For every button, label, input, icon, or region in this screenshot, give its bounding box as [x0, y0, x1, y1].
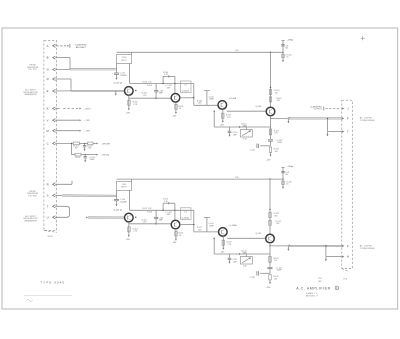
svg-text:C: C: [47, 142, 49, 146]
svg-text:R-105: R-105: [147, 85, 152, 87]
transformer T-2: [181, 81, 192, 93]
wire output to shielded run: [270, 245, 288, 247]
ground stub at run start: [287, 119, 289, 123]
svg-text:2W: 2W: [88, 148, 91, 150]
svg-text:.5MF: .5MF: [158, 220, 163, 222]
capacitor C-116 side branch: [250, 271, 270, 279]
svg-text:T-4: T-4: [184, 211, 187, 213]
svg-text:TO RECORDER: TO RECORDER: [360, 248, 375, 250]
capacitor C-121: [81, 154, 95, 162]
note: sheet / model: [306, 293, 319, 297]
wire Q-107 emitter junction: [269, 243, 270, 247]
svg-text:1K: 1K: [179, 235, 182, 237]
svg-text:100: 100: [274, 278, 277, 280]
svg-text:560: 560: [274, 215, 277, 217]
wire shielded input run to Q-100 base: [55, 90, 124, 91]
mini bias rail: [130, 81, 194, 83]
svg-text:+28V ▶: +28V ▶: [287, 165, 294, 168]
signature line: [24, 295, 72, 301]
resistor R-104 bridge: [162, 72, 175, 84]
svg-text:2.7K: 2.7K: [227, 244, 232, 246]
note: ac input from motor generator (a): [24, 89, 38, 97]
pin D (J-101): [47, 77, 56, 81]
capacitor C-111 on gain line: [228, 254, 238, 263]
capacitor C-110 on gain line: [228, 127, 238, 136]
svg-text:1MF: 1MF: [233, 261, 238, 263]
svg-text:+: +: [112, 73, 114, 75]
ground arrow bottom: [266, 152, 272, 161]
label Q-100: [114, 82, 122, 85]
svg-text:25MF: 25MF: [89, 159, 95, 161]
pin T (P-4): [342, 130, 349, 134]
svg-text:–28V: –28V: [266, 159, 271, 161]
svg-text:4.7K: 4.7K: [164, 74, 169, 76]
svg-text:A: A: [47, 44, 49, 48]
svg-text:560: 560: [275, 92, 278, 94]
wire tap to gain pot line: [214, 238, 215, 254]
svg-text:Q-102A: Q-102A: [229, 97, 237, 100]
svg-text:270: 270: [275, 133, 278, 135]
label R-105 bias: [147, 85, 152, 87]
potentiometer R-110 GAIN: [240, 123, 252, 140]
resistor R-118: [220, 236, 232, 253]
pin C (J-101): [47, 142, 56, 146]
svg-text:MODEL 9: MODEL 9: [306, 295, 319, 297]
svg-text:GENERATOR: GENERATOR: [24, 220, 37, 223]
svg-text:TO RECORDER: TO RECORDER: [360, 120, 375, 122]
capacitor C-18 terminal above rail: [281, 165, 293, 179]
svg-text:2.2K: 2.2K: [133, 104, 138, 106]
capacitor C-104: [204, 91, 215, 106]
svg-text:–28V: –28V: [266, 287, 271, 289]
svg-text:56: 56: [286, 184, 288, 186]
resistor R-129: [269, 220, 281, 225]
svg-text:100: 100: [275, 151, 278, 153]
svg-text:1500MF: 1500MF: [120, 201, 128, 203]
label Q-104: [114, 208, 122, 211]
svg-text:2.5K: 2.5K: [243, 266, 248, 268]
svg-text:10MF: 10MF: [277, 142, 283, 144]
svg-text:+ 28V: + 28V: [84, 120, 90, 122]
svg-text:S: S: [47, 194, 49, 198]
svg-text:5MF: 5MF: [167, 87, 172, 89]
node Q-100 base dot: [135, 90, 136, 91]
label C-103 +: [165, 85, 172, 89]
svg-text:–28V: –28V: [172, 242, 177, 244]
svg-text:2.2K: 2.2K: [133, 231, 138, 233]
svg-text:500: 500: [285, 174, 288, 176]
svg-text:5MF: 5MF: [167, 214, 172, 216]
resistor R-115 bridge: [162, 199, 175, 211]
svg-text:GAIN: GAIN: [242, 124, 247, 127]
wire pin A dashed stub: [55, 44, 70, 48]
wire pin V +28V: [55, 119, 81, 121]
svg-text:Q-104 ◀: Q-104 ◀: [114, 208, 122, 211]
wire Q-100 to Q-101A base: [129, 98, 171, 99]
pin K (J-101): [47, 107, 56, 111]
capacitor C-101: [112, 64, 128, 80]
svg-text:Q-100 ◀: Q-100 ◀: [114, 82, 122, 85]
svg-text:1.2K: 1.2K: [143, 95, 148, 97]
wire rail to Q-101A collector: [174, 84, 176, 94]
wire Q-101A out: [180, 84, 218, 106]
resistor R-128: [269, 209, 279, 218]
label Q-105A: [180, 216, 190, 219]
svg-text:AIRCRAFT: AIRCRAFT: [76, 46, 87, 49]
capacitor C-120: [83, 143, 86, 150]
svg-text:P-4: P-4: [344, 279, 348, 281]
label R-114: [142, 219, 148, 223]
svg-text:R: R: [47, 182, 49, 186]
svg-text:T: T: [347, 130, 349, 134]
label R-106: [197, 100, 202, 104]
svg-text:R-121 1.2K: R-121 1.2K: [143, 208, 153, 210]
svg-text:–28V: –28V: [220, 252, 225, 254]
svg-text:N: N: [47, 68, 49, 72]
svg-text:–28V: –28V: [172, 115, 177, 117]
svg-text:F: F: [347, 244, 349, 248]
registration mark: [361, 36, 365, 40]
svg-text:2.5K: 2.5K: [235, 177, 239, 179]
pin R (J-101): [47, 182, 56, 186]
svg-text:560: 560: [276, 223, 279, 225]
transistor Q-106A: [219, 228, 228, 237]
note: ac input from motor generator (b): [24, 215, 38, 223]
svg-text:–28V NET: –28V NET: [101, 143, 111, 145]
svg-text:J: J: [347, 107, 349, 111]
node CLASSIFIED OUTPUT label: [310, 105, 322, 110]
svg-text:OUTPUT: OUTPUT: [314, 109, 323, 111]
label R-116 bias: [147, 212, 152, 214]
resistor R-105 emitter: [172, 102, 184, 117]
wire gain pot line: [214, 253, 270, 254]
svg-text:+28V ▶: +28V ▶: [287, 38, 294, 41]
pin U (J-101): [47, 215, 56, 219]
pin N (J-101): [47, 68, 56, 72]
svg-text:– 28V: – 28V: [84, 131, 90, 133]
ground arrow bottom: [266, 280, 272, 289]
wire pin R stub: [55, 181, 72, 185]
note: from precision supply (a): [27, 65, 39, 72]
svg-text:1MF: 1MF: [233, 134, 238, 136]
svg-text:750: 750: [318, 278, 322, 280]
svg-text:T-2: T-2: [184, 85, 187, 87]
svg-text:1W: 1W: [75, 148, 78, 150]
svg-text:K: K: [47, 107, 49, 111]
svg-text:–28V (R): –28V (R): [101, 155, 109, 157]
note: ac output to recorder (lower): [360, 244, 375, 250]
resistor R-108: [269, 87, 279, 95]
ground stub at run start: [287, 247, 289, 251]
wire shielded output run: [288, 245, 342, 247]
pin B (J-101): [47, 56, 56, 60]
svg-text:469: 469: [318, 281, 322, 283]
wire gain pot line: [214, 126, 270, 127]
mini bias rail: [130, 208, 194, 210]
svg-text:GENERATOR: GENERATOR: [24, 93, 37, 96]
transformer T-4: [181, 208, 192, 220]
svg-text:10K: 10K: [198, 229, 202, 231]
wire pin K +300V dashed: [55, 108, 81, 110]
resistor R-113: [126, 222, 138, 241]
svg-text:Q-106A: Q-106A: [229, 224, 237, 227]
wire Q-102A to Q-103: [227, 110, 266, 112]
svg-text:500: 500: [285, 47, 288, 49]
resistor R-131: [269, 246, 279, 267]
resistor R-132: [269, 275, 279, 281]
svg-text:Q-107: Q-107: [256, 233, 263, 235]
svg-text:–28V: –28V: [220, 125, 225, 127]
note: TYPE 9045: [40, 281, 65, 285]
wire Q-105A out: [180, 210, 218, 232]
wire R-121 to R-122: [79, 143, 87, 144]
wire channel supply rail horizontal: [117, 178, 284, 181]
svg-text:+: +: [112, 199, 114, 201]
transistor Q-101A: [171, 94, 180, 103]
label rail R value: [235, 177, 239, 179]
note: ac output to recorder (upper): [360, 116, 375, 122]
svg-text:C-116: C-116: [250, 277, 255, 279]
wire tap to second output pin: [325, 245, 341, 256]
wire tap to gain pot line: [214, 111, 215, 128]
wire tap to second output pin: [327, 118, 342, 132]
connector J-101: [44, 41, 57, 233]
ground hook on input shield: [115, 91, 117, 95]
resistor R-100 below rail to ground: [282, 52, 292, 61]
wire to network B arrow: [85, 154, 98, 156]
transformer T-101: [117, 181, 132, 190]
svg-text:–28V: –28V: [126, 112, 131, 114]
resistor R-111: [269, 118, 278, 139]
svg-text:10K: 10K: [198, 103, 202, 105]
resistor R-121: [73, 142, 79, 150]
label R-103: [142, 93, 148, 97]
svg-text:T: T: [47, 204, 49, 208]
svg-text:P.S. TOP: P.S. TOP: [28, 69, 37, 71]
capacitor C-103: [154, 84, 163, 99]
svg-text:P.S. TOP: P.S. TOP: [28, 196, 37, 198]
svg-text:270: 270: [274, 260, 277, 262]
pin F (P-4): [342, 117, 349, 121]
resistor R-124: [75, 153, 81, 159]
svg-text:F: F: [347, 117, 349, 121]
svg-text:T-100: T-100: [122, 57, 127, 59]
svg-text:E: E: [47, 89, 49, 93]
svg-text:+ Q-105A: + Q-105A: [180, 216, 190, 219]
capacitor C-115: [268, 267, 283, 273]
transistor Q-102A: [218, 101, 227, 110]
wire Q-100 collector to rail: [129, 64, 131, 84]
transistor Q-100: [125, 87, 134, 96]
svg-text:+300 V: +300 V: [84, 109, 92, 111]
wire shielded run to Q-104 base: [86, 217, 125, 219]
transistor Q-107: [266, 234, 275, 243]
wire Q-104 collector to rail: [129, 190, 131, 210]
label R-117: [197, 227, 202, 231]
svg-text:56: 56: [286, 57, 288, 59]
svg-text:R-116: R-116: [147, 212, 152, 214]
svg-text:INPUT: INPUT: [121, 187, 127, 189]
ground stub at tap: [326, 132, 328, 136]
pin V (J-101): [47, 118, 56, 122]
transformer T-100: [117, 55, 132, 64]
wire rail down to Q-107: [269, 179, 271, 234]
svg-text:10MF: 10MF: [209, 99, 215, 101]
svg-text:10MF: 10MF: [209, 225, 215, 227]
wire channel supply rail horizontal: [117, 52, 284, 55]
svg-text:–28V: –28V: [126, 239, 131, 241]
capacitor C-109: [204, 217, 215, 232]
capacitor C-105: [268, 140, 283, 146]
wire pin M -28V: [55, 130, 81, 132]
label rail R value: [235, 50, 239, 52]
svg-text:R-124: R-124: [75, 157, 80, 159]
connector P-4: [342, 100, 353, 271]
svg-text:T-101: T-101: [122, 184, 127, 186]
wire Q-104 to Q-105A base: [129, 223, 171, 224]
pin F (P-4): [342, 244, 349, 248]
resistor R-116 emitter: [172, 229, 183, 244]
pin M (J-101): [46, 129, 55, 133]
svg-text:U: U: [47, 215, 49, 219]
svg-text:H: H: [347, 255, 349, 259]
wire branch down from R-121 node: [71, 143, 75, 155]
capacitor C-103: [112, 190, 128, 206]
pin S (J-101): [47, 194, 56, 198]
wire pin B jog: [55, 58, 70, 70]
svg-text:560: 560: [277, 100, 280, 102]
potentiometer R-120 GAIN: [240, 250, 252, 267]
note: drawing numbers: [318, 278, 322, 283]
svg-text:TYPE 9045: TYPE 9045: [40, 281, 65, 285]
svg-text:M: M: [46, 129, 49, 133]
pin T (J-101): [47, 204, 56, 208]
svg-text:V: V: [47, 118, 49, 122]
pin H (P-4): [342, 255, 349, 259]
wire classified output dashed: [324, 107, 340, 111]
svg-text:J-101: J-101: [47, 236, 53, 238]
svg-text:C-106: C-106: [250, 150, 255, 152]
wire pin T/U shield loop: [55, 206, 69, 217]
ground stub at tap: [325, 257, 327, 261]
svg-text:+ Q-101A: + Q-101A: [180, 90, 190, 93]
svg-text:Q-103: Q-103: [256, 106, 263, 108]
transistor Q-105A: [171, 220, 180, 229]
wire pin C to network: [55, 142, 73, 144]
label C-108 +: [165, 212, 172, 216]
svg-text:10MF: 10MF: [277, 270, 283, 272]
wire Q-103 emitter junction: [270, 116, 271, 119]
svg-text:A.C. AMPLIFIER: A.C. AMPLIFIER: [296, 286, 330, 290]
note: from precision supply (b): [27, 191, 39, 198]
wire pin D jog: [55, 79, 71, 91]
resistor R-122: [87, 142, 93, 150]
svg-text:1K: 1K: [179, 108, 182, 110]
transistor Q-104: [125, 213, 134, 222]
svg-text:2.7K: 2.7K: [227, 117, 232, 119]
wire output to shielded run: [271, 117, 288, 119]
wire to network A arrow: [93, 142, 98, 144]
label Q-103: [256, 106, 263, 108]
pin A (J-101): [47, 44, 56, 48]
label Q-101A: [180, 90, 190, 93]
resistor R-109: [269, 97, 281, 102]
wire shielded output run: [288, 117, 342, 119]
svg-text:INPUT: INPUT: [121, 60, 127, 62]
resistor R-107: [220, 109, 232, 126]
resistor R-102: [126, 95, 138, 114]
svg-text:1.2K: 1.2K: [143, 222, 148, 224]
capacitor C-108: [154, 210, 163, 224]
capacitor C-106 side branch: [250, 144, 271, 152]
title A.C. AMPLIFIER: [296, 286, 339, 290]
svg-text:GAIN: GAIN: [242, 251, 247, 254]
resistor R-130 below rail to ground: [282, 179, 292, 188]
label Q-107: [256, 233, 263, 235]
svg-text:1500MF: 1500MF: [120, 75, 128, 77]
wire Q-106A to Q-107: [227, 237, 266, 239]
svg-text:.5MF: .5MF: [158, 93, 163, 95]
svg-text:B: B: [47, 56, 49, 60]
svg-text:D: D: [47, 77, 49, 81]
resistor R-112: [269, 147, 278, 153]
pin E (J-101): [47, 89, 56, 93]
label Q-106A: [229, 224, 237, 227]
wire rail down to Q-103: [270, 52, 272, 107]
capacitor C-8 terminal above rail: [281, 38, 293, 52]
wire shielded input run lower: [55, 195, 116, 197]
wire rail to Q-105A collector: [174, 210, 176, 220]
wire shielded input run upper: [55, 69, 116, 70]
label Q-102A: [229, 97, 237, 100]
transistor Q-103: [266, 107, 275, 116]
svg-text:4.7K: 4.7K: [164, 201, 169, 203]
node CLASSIFIED AIRCRAFT label: [75, 44, 87, 49]
svg-text:2.5K: 2.5K: [243, 139, 248, 141]
node Q-104 base dot: [135, 217, 136, 218]
svg-text:R-101 1.2K: R-101 1.2K: [143, 81, 153, 83]
pin J (P-4): [342, 107, 349, 111]
